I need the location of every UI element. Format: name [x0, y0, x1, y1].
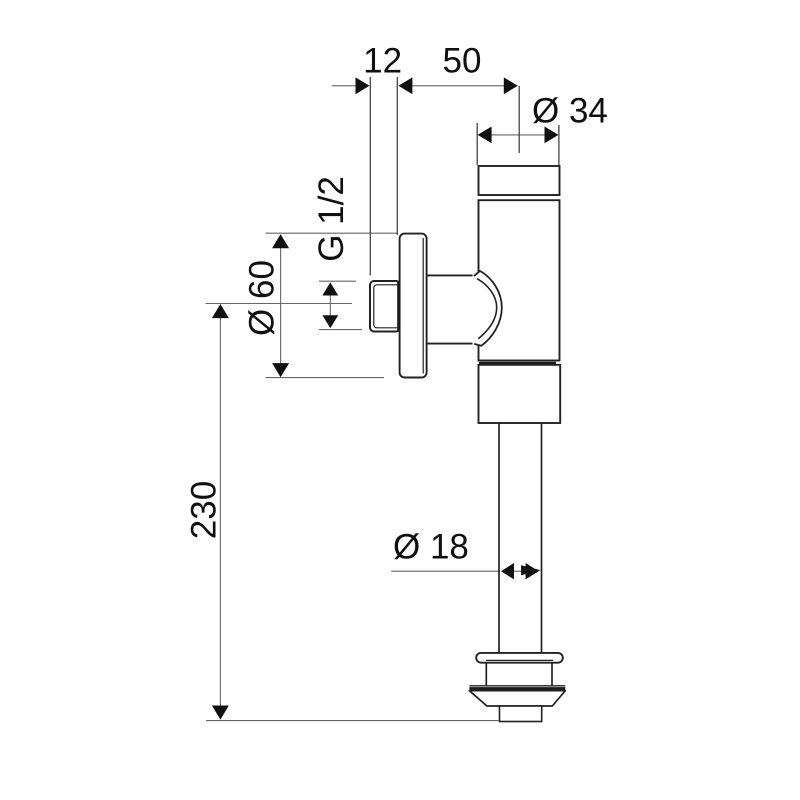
svg-text:G 1/2: G 1/2	[312, 176, 351, 262]
svg-text:Ø 60: Ø 60	[243, 260, 282, 336]
svg-text:230: 230	[185, 481, 224, 539]
svg-text:50: 50	[443, 42, 482, 81]
svg-text:Ø 34: Ø 34	[532, 91, 608, 130]
svg-text:12: 12	[363, 42, 402, 81]
svg-text:Ø 18: Ø 18	[393, 527, 469, 566]
